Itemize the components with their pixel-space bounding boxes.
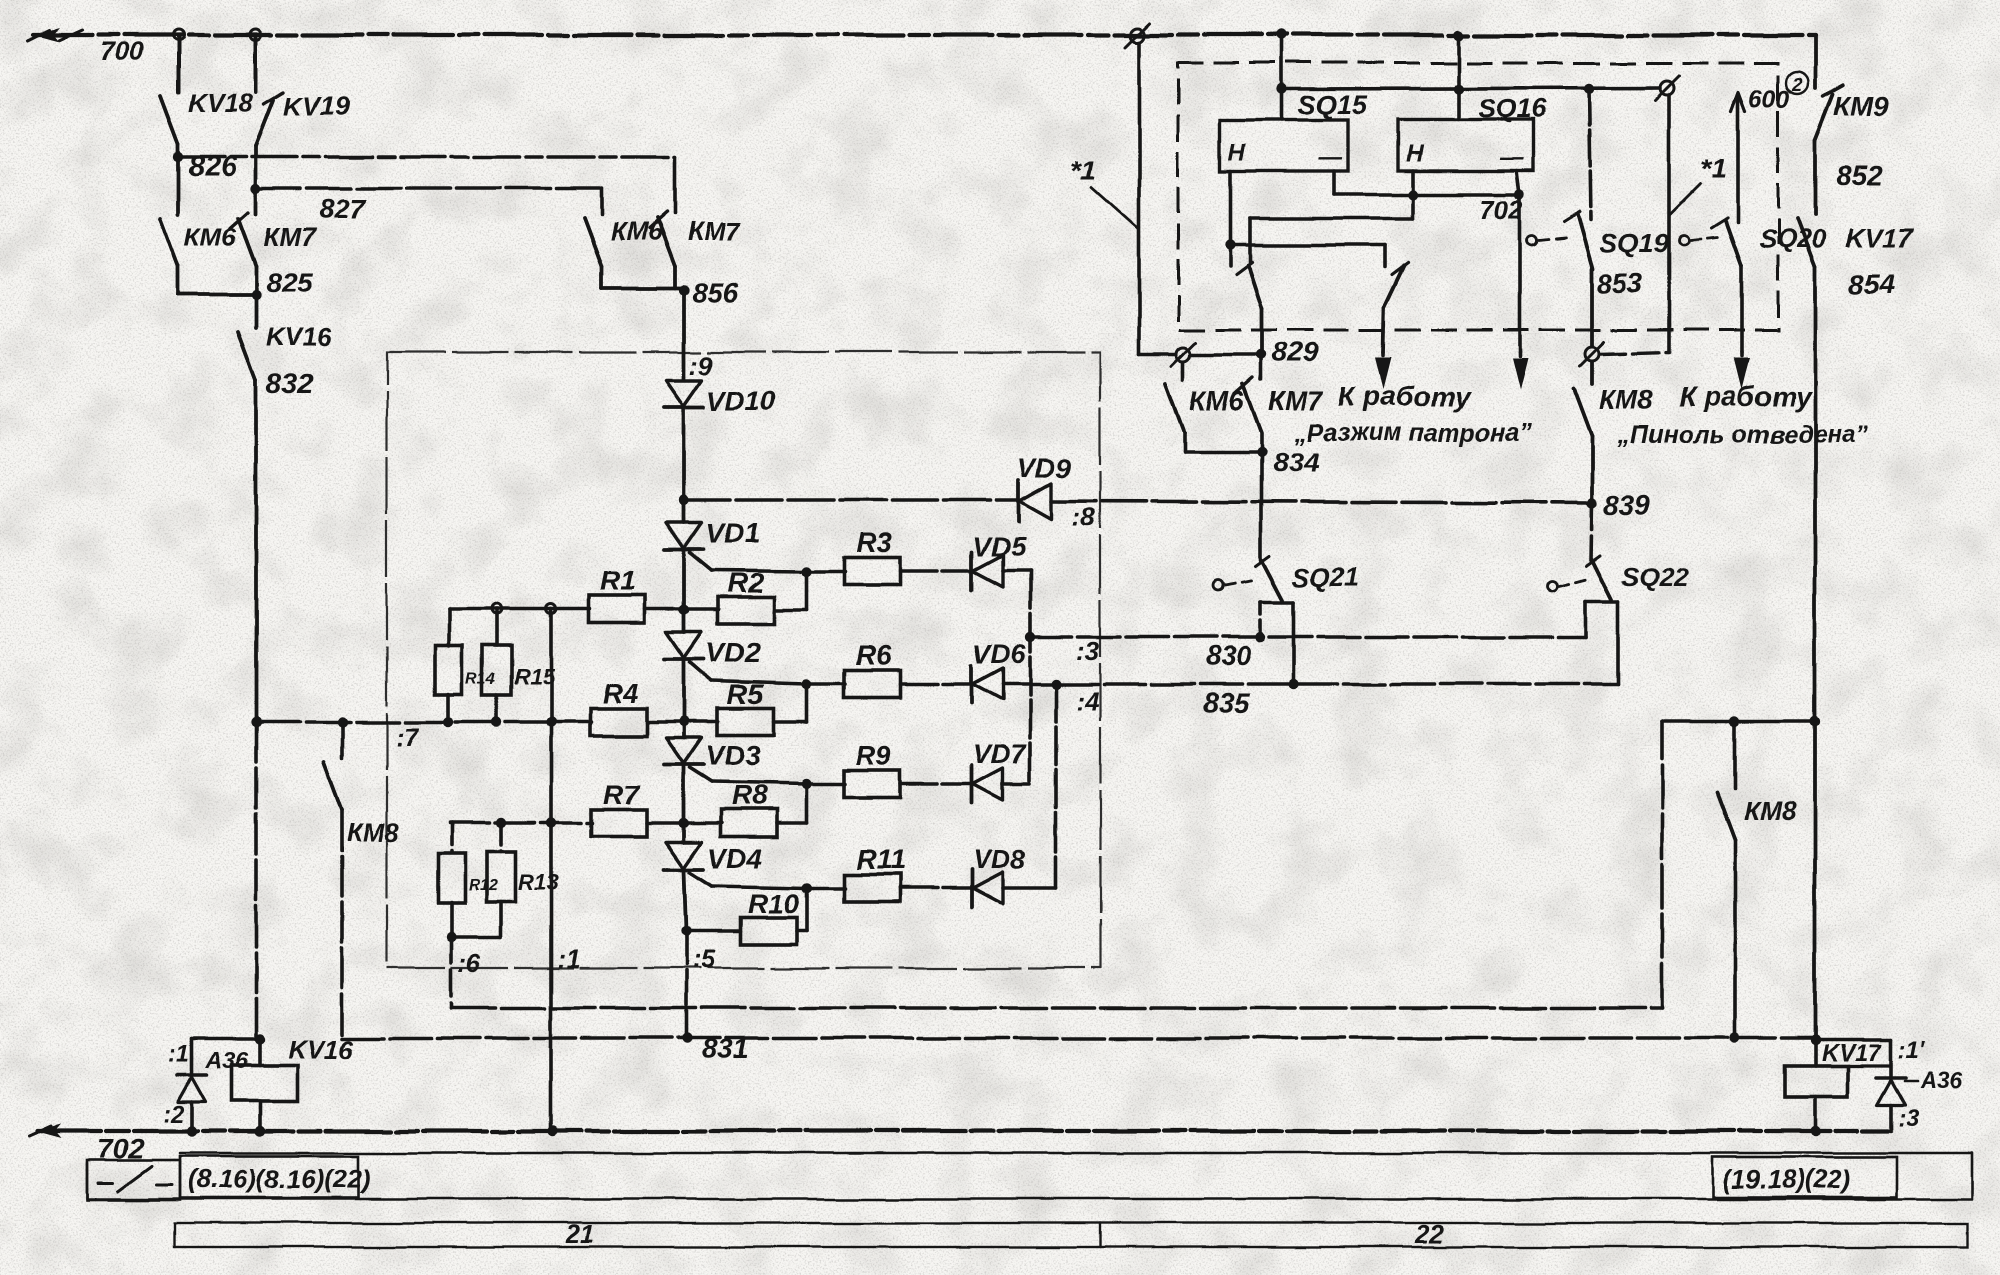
svg-text:VD4: VD4	[708, 843, 763, 874]
svg-text:R11: R11	[856, 844, 905, 875]
wire A36 top lead	[190, 1039, 194, 1073]
wire A36r bottom	[1889, 1105, 1893, 1131]
control box (dashed)	[1178, 63, 1778, 330]
node SQ21 on 835	[1289, 679, 1299, 689]
svg-text:600: 600	[1748, 86, 1790, 114]
wire R3 to VD5	[900, 569, 972, 573]
wire SQ19 to circle	[1590, 268, 1594, 346]
wire bus 702	[38, 1129, 1888, 1133]
svg-text:2: 2	[1791, 75, 1802, 95]
resistor R7	[591, 810, 647, 837]
contact KV16	[254, 295, 258, 328]
assembly box outline	[387, 352, 1100, 968]
arrow to работу 3	[1740, 352, 1744, 356]
wire bar 825	[178, 293, 256, 297]
SQ22 bracket	[1586, 600, 1619, 604]
diode VD5	[970, 552, 974, 590]
wire left rail lower	[254, 722, 258, 1039]
connector circle inner right	[1660, 81, 1674, 95]
svg-text::2: :2	[163, 1101, 185, 1128]
svg-text:832: 832	[266, 368, 313, 399]
zone divider	[1099, 1223, 1101, 1247]
node KV17 bottom	[1810, 1126, 1820, 1136]
svg-text:SQ19: SQ19	[1600, 228, 1669, 258]
node riser top	[546, 604, 556, 614]
diode VD1 (chain)	[682, 500, 686, 522]
node 831 KM8r	[1730, 1033, 1740, 1043]
diode VD9	[1017, 480, 1021, 522]
svg-text:КМ6: КМ6	[184, 222, 237, 252]
svg-text:„Разжим патрона”: „Разжим патрона”	[1293, 419, 1533, 447]
node R15 bottom	[492, 717, 502, 727]
svg-text:*1: *1	[1700, 153, 1726, 184]
svg-text:Н: Н	[1228, 139, 1246, 166]
svg-text:KV18: KV18	[188, 88, 254, 118]
svg-text::5: :5	[692, 944, 716, 974]
wire SQ20 down	[1740, 266, 1744, 352]
node KV17 top	[1810, 1035, 1820, 1045]
svg-text:А36: А36	[205, 1047, 248, 1073]
wire R9 to VD7	[900, 782, 972, 786]
wire A36r top	[1815, 1038, 1891, 1042]
wire A36 bottom lead	[190, 1102, 194, 1131]
resistor R2	[718, 597, 774, 624]
connector circle 829 line	[1177, 348, 1191, 362]
circle SQ19 link	[1527, 236, 1537, 246]
svg-text::6: :6	[458, 948, 482, 978]
contact KM7 second	[657, 218, 675, 266]
wire VD9 line right	[1052, 501, 1592, 503]
svg-text:(19.18)(22): (19.18)(22)	[1722, 1164, 1851, 1194]
wire VD3 tap to R9	[712, 782, 807, 784]
svg-text:21: 21	[564, 1219, 594, 1249]
node 839	[1587, 498, 1597, 508]
node R3 line	[802, 566, 812, 576]
node 834	[1256, 447, 1266, 457]
wire chain VD1-R2line	[682, 550, 686, 610]
resistor R10	[741, 918, 797, 945]
node VD6-VD8 vert top	[1051, 679, 1061, 689]
connector circle KM8	[1585, 347, 1599, 361]
wire R15 bottom lead	[495, 695, 499, 722]
resistor R9	[844, 771, 900, 798]
wire to R6	[807, 682, 845, 686]
svg-text:VD10: VD10	[707, 386, 775, 416]
wire circle to 829	[1192, 353, 1261, 357]
node R9 line	[802, 779, 812, 789]
circle SQ21 link	[1213, 581, 1223, 591]
svg-text:SQ21: SQ21	[1292, 562, 1359, 592]
diode VD4 (chain)	[682, 823, 686, 842]
diode A36 left	[177, 1073, 207, 1077]
wire R15 top lead	[495, 609, 499, 645]
title cell right	[1712, 1157, 1897, 1197]
wire R14 bottom lead	[447, 694, 451, 722]
wire 702 node line	[1332, 171, 1336, 194]
wire R5 right riser	[774, 720, 807, 724]
title row 1 box	[87, 1153, 1972, 1199]
wire SQ16 left lead	[1411, 171, 1415, 194]
node 826	[173, 152, 183, 162]
label circled 2	[1786, 72, 1808, 94]
wire R8 right riser	[777, 821, 807, 825]
wire VD6-VD8 vertical	[1054, 684, 1058, 888]
wire :1 vertical	[549, 609, 553, 1131]
wire R7 to chain	[647, 821, 722, 825]
node on bus at KV18	[173, 30, 184, 41]
svg-text:SQ22: SQ22	[1622, 562, 1689, 592]
node 856	[679, 285, 689, 295]
node R14 bottom	[444, 717, 454, 727]
svg-text:Н: Н	[1406, 141, 1424, 168]
wire bar 856	[602, 286, 684, 290]
node KM8 branch	[337, 717, 347, 727]
wire :6 vertical	[449, 937, 453, 1008]
wire R14 top bar	[449, 607, 590, 611]
diode VD10	[666, 380, 702, 406]
svg-text:KV19: KV19	[284, 91, 350, 121]
bus 700 left break mark	[34, 28, 60, 42]
svg-text:R3: R3	[856, 527, 892, 558]
diode VD7	[970, 765, 974, 803]
svg-text:КМ9: КМ9	[1834, 91, 1888, 121]
wire VD4 tap to R11	[712, 886, 807, 888]
svg-text:827: 827	[318, 193, 366, 224]
svg-text::7: :7	[396, 722, 421, 752]
svg-text:R4: R4	[602, 678, 638, 709]
svg-text:R10: R10	[748, 888, 800, 919]
arrow to работу 1	[1518, 352, 1522, 356]
svg-text:839: 839	[1604, 489, 1651, 520]
wire 831	[342, 1036, 1815, 1040]
svg-text:R7: R7	[603, 779, 640, 810]
wire VD9 line left	[684, 498, 1019, 502]
svg-text:(8.16)(8.16)(22): (8.16)(8.16)(22)	[188, 1164, 370, 1194]
wire R12 top bar / R7 line	[449, 821, 592, 825]
contact KM6 second	[584, 218, 602, 266]
node R15 top	[492, 604, 502, 614]
arrow to работу 2	[1381, 353, 1385, 356]
svg-text::9: :9	[689, 350, 713, 380]
resistor R6	[844, 671, 900, 698]
svg-text:KV16: KV16	[266, 322, 332, 352]
svg-text:К работу: К работу	[1338, 381, 1471, 412]
wire R12 bottom lead	[449, 902, 453, 937]
node :1 bus	[548, 1126, 558, 1136]
svg-text::1: :1	[557, 944, 580, 974]
node chain top	[679, 495, 689, 505]
diode VD3 (chain)	[682, 722, 686, 738]
node chain R5 line	[679, 717, 689, 727]
wire chain to 831	[684, 931, 688, 1038]
wire to R11	[807, 886, 845, 890]
wire chain VD4-R10line	[684, 870, 686, 931]
node 829	[1256, 350, 1266, 360]
node riser r7	[546, 818, 556, 828]
bus 702 left arrow	[36, 1124, 62, 1138]
wire chain to R10	[686, 929, 741, 933]
wire SQ19 drop	[1589, 89, 1591, 220]
svg-text:22: 22	[1414, 1219, 1444, 1249]
resistor R12	[438, 854, 465, 903]
svg-text:VD2: VD2	[706, 637, 761, 668]
node R13 top	[496, 818, 506, 828]
contact KV18	[160, 96, 178, 144]
svg-text::8: :8	[1072, 502, 1096, 532]
wire to R9	[807, 782, 845, 786]
wire to R3	[807, 569, 845, 573]
wire VD2 tap to R6	[712, 681, 807, 684]
svg-text:*1: *1	[1070, 155, 1096, 186]
wire :6 return up	[1660, 722, 1664, 1008]
coil KV17	[1813, 1040, 1817, 1066]
wire bus 700 top	[34, 33, 1815, 37]
wire R6 to VD6	[900, 682, 972, 686]
svg-text:VD8: VD8	[973, 844, 1026, 874]
diode VD2 (chain)	[682, 610, 686, 632]
svg-text:А36: А36	[1920, 1067, 1963, 1093]
node R6 line	[802, 679, 812, 689]
wire VD8 out	[1003, 886, 1056, 890]
svg-text::4: :4	[1076, 686, 1100, 716]
svg-text:SQ16: SQ16	[1478, 94, 1548, 124]
svg-text:VD1: VD1	[706, 517, 760, 548]
svg-text:700: 700	[100, 36, 144, 66]
svg-text:854: 854	[1849, 269, 1896, 300]
circle SQ20 link	[1679, 235, 1689, 245]
wire 834 to SQ21	[1259, 452, 1263, 560]
wire VD7 out	[1003, 782, 1030, 786]
resistor R13	[487, 852, 516, 902]
wire VD10 to node8	[682, 408, 686, 500]
contact SQ18 inner right	[1392, 263, 1408, 275]
wire SQ16 drop	[1456, 35, 1460, 120]
wire R11 to VD8	[900, 886, 972, 890]
wire SQ15 drop	[1280, 35, 1284, 120]
wire right connector vertical	[1667, 95, 1671, 352]
node SQ16 inner	[1453, 84, 1463, 94]
svg-text:702: 702	[1480, 194, 1524, 224]
wire :6 return	[451, 1006, 1662, 1010]
svg-text:852: 852	[1836, 160, 1883, 191]
zone row box	[174, 1223, 1968, 1247]
diode VD8	[970, 869, 974, 907]
node 827	[251, 183, 261, 193]
node KV16 bottom	[255, 1126, 265, 1136]
wire 839 to SQ22	[1591, 503, 1592, 560]
arrow up 600	[1731, 93, 1745, 112]
svg-text:VD7: VD7	[973, 739, 1028, 769]
wire bar 834	[1184, 450, 1261, 454]
node chain R8 line	[679, 818, 689, 828]
node 830 vert junction	[1025, 632, 1035, 642]
wire R2 right riser	[774, 608, 807, 612]
wire *1 vertical	[1137, 42, 1141, 355]
node SQ15 inner line	[1277, 84, 1287, 94]
svg-text:KV17: KV17	[1845, 223, 1915, 253]
resistor R11	[844, 875, 900, 902]
contact KM7 left	[254, 188, 258, 214]
diode VD6	[970, 665, 974, 703]
title row 1 cell1	[87, 1160, 180, 1200]
node on bus at KV19	[251, 30, 262, 41]
svg-text:КМ8: КМ8	[1744, 796, 1797, 826]
wire KV19 top lead	[254, 35, 258, 92]
svg-text::3: :3	[1076, 636, 1100, 666]
diode A36 right	[1876, 1076, 1906, 1080]
node 830	[1256, 632, 1266, 642]
svg-text:VD9: VD9	[1018, 453, 1071, 483]
wire 702 down to arrow	[1518, 194, 1522, 352]
svg-text::1′: :1′	[1898, 1037, 1926, 1064]
svg-text::3: :3	[1898, 1105, 1920, 1132]
svg-text:КМ6: КМ6	[610, 216, 663, 246]
node chain R10 line	[681, 926, 691, 936]
contact SQ19	[1564, 212, 1580, 222]
node 825	[251, 290, 261, 300]
node KM8 right top	[1730, 717, 1740, 727]
contact KM6 mid	[1182, 363, 1186, 380]
SQ21 bracket	[1261, 600, 1294, 604]
node right rail bar	[1810, 717, 1820, 727]
wire KV18 top lead	[176, 35, 180, 92]
node R11 line	[802, 883, 812, 893]
wire 827	[256, 186, 602, 190]
wire R12 top lead	[449, 823, 453, 853]
wire VD5 out	[1003, 569, 1030, 573]
node KV16 top	[255, 1034, 265, 1044]
svg-text:856: 856	[692, 277, 739, 308]
node 702 corner	[1515, 189, 1525, 199]
svg-text::1: :1	[168, 1041, 189, 1068]
node SQ16 bus	[1453, 30, 1463, 40]
node chain R2 line	[679, 605, 689, 615]
coil KV16	[258, 1039, 262, 1065]
node A36 bottom	[187, 1126, 197, 1136]
wire chain VD2-R5line	[682, 660, 686, 722]
wire VD1 tap to R3	[712, 570, 807, 571]
svg-text:853: 853	[1597, 268, 1642, 298]
node R12 bottom bar	[446, 932, 456, 942]
circle SQ22 link	[1547, 582, 1557, 592]
svg-text:КМ8: КМ8	[347, 817, 400, 847]
node :7 rail	[251, 717, 261, 727]
wire chain VD3-R8line	[682, 766, 686, 823]
svg-text:835: 835	[1203, 687, 1250, 718]
resistor R5	[718, 709, 774, 736]
wire VD6 out	[1003, 682, 1056, 686]
contact KV17	[1797, 219, 1815, 267]
contact KM8 left	[340, 722, 344, 758]
wire bar to right rail	[1662, 720, 1815, 724]
svg-text:825: 825	[266, 267, 313, 298]
title symbol	[98, 1182, 113, 1185]
svg-text:KV17: KV17	[1821, 1040, 1883, 1067]
svg-text:R6: R6	[855, 640, 891, 671]
title row 1 cell2	[180, 1156, 358, 1198]
wire 826 corner down	[673, 157, 677, 214]
wire 830	[1030, 635, 1586, 639]
wire 835	[1056, 682, 1619, 686]
node SQ15 bus	[1277, 30, 1287, 40]
svg-text:R9: R9	[856, 740, 892, 771]
contact KM8 right	[1733, 722, 1737, 788]
contact KV19	[256, 100, 274, 146]
svg-text:VD5: VD5	[973, 532, 1027, 562]
wire 827 corner down	[600, 188, 604, 214]
contact KM6 left	[176, 157, 180, 214]
svg-text:„Пиноль отведена”: „Пиноль отведена”	[1617, 421, 1869, 449]
wire R4 to chain	[646, 720, 719, 724]
wire VD5-VD7 vertical	[1028, 571, 1032, 784]
svg-text:KV16: KV16	[288, 1034, 354, 1064]
svg-text:831: 831	[702, 1033, 749, 1064]
svg-text:—: —	[1317, 144, 1343, 171]
wire crossbar y218	[1250, 216, 1413, 220]
contact KM9	[1815, 94, 1833, 140]
wire :7 line	[256, 720, 591, 724]
svg-text:КМ7: КМ7	[1268, 386, 1324, 416]
svg-text:—: —	[1499, 145, 1525, 172]
wire crossbar y245	[1230, 243, 1385, 247]
svg-text:VD3: VD3	[706, 740, 761, 771]
svg-text:830: 830	[1205, 640, 1252, 671]
wire circle link right	[1600, 352, 1669, 354]
resistor R8	[721, 810, 777, 837]
svg-text:SQ20: SQ20	[1759, 224, 1826, 254]
switch SQ16 box	[1398, 120, 1534, 171]
contact KM7 mid	[1259, 355, 1263, 380]
wire SQ15 left lead	[1228, 171, 1232, 266]
resistor R3	[844, 558, 900, 585]
svg-text:КМ7: КМ7	[687, 216, 741, 246]
wire inner line	[1282, 88, 1660, 89]
node SQ15 left	[1225, 240, 1235, 250]
svg-text:829: 829	[1272, 337, 1319, 368]
svg-text:SQ15: SQ15	[1298, 90, 1368, 120]
wire to circle 829	[1139, 353, 1176, 357]
switch SQ15 box	[1220, 120, 1348, 171]
connector circle on bus	[1130, 28, 1144, 42]
svg-text:КМ7: КМ7	[263, 222, 317, 252]
node 831	[682, 1033, 692, 1043]
node R2 left	[679, 605, 689, 615]
wire R1 to chain	[645, 607, 719, 611]
node SQ19 inner	[1584, 84, 1594, 94]
node riser mid	[546, 717, 556, 727]
wire R13 bottom lead	[499, 902, 503, 937]
svg-text:VD6: VD6	[973, 639, 1027, 669]
contact SQ20	[1712, 218, 1728, 228]
svg-text:К работу: К работу	[1679, 381, 1812, 412]
wire R10 right riser	[797, 929, 807, 933]
contact SQ22	[1592, 560, 1612, 600]
wire bus corner KM9	[1813, 35, 1817, 88]
resistor R15	[483, 645, 512, 695]
wire KV16 bar	[192, 1037, 260, 1041]
wire 856 to VD10	[682, 290, 686, 378]
contact SQ17 inner left	[1236, 262, 1252, 274]
svg-text:834: 834	[1272, 447, 1319, 478]
resistor R14	[436, 646, 463, 695]
wire R13 top lead	[499, 823, 503, 852]
svg-text:R15: R15	[514, 664, 555, 689]
wire 826	[178, 155, 675, 159]
contact SQ21	[1262, 560, 1283, 600]
wire R12/R13 bottom bar	[451, 935, 501, 939]
node 702	[1408, 189, 1418, 199]
svg-text:КМ8: КМ8	[1599, 385, 1653, 415]
